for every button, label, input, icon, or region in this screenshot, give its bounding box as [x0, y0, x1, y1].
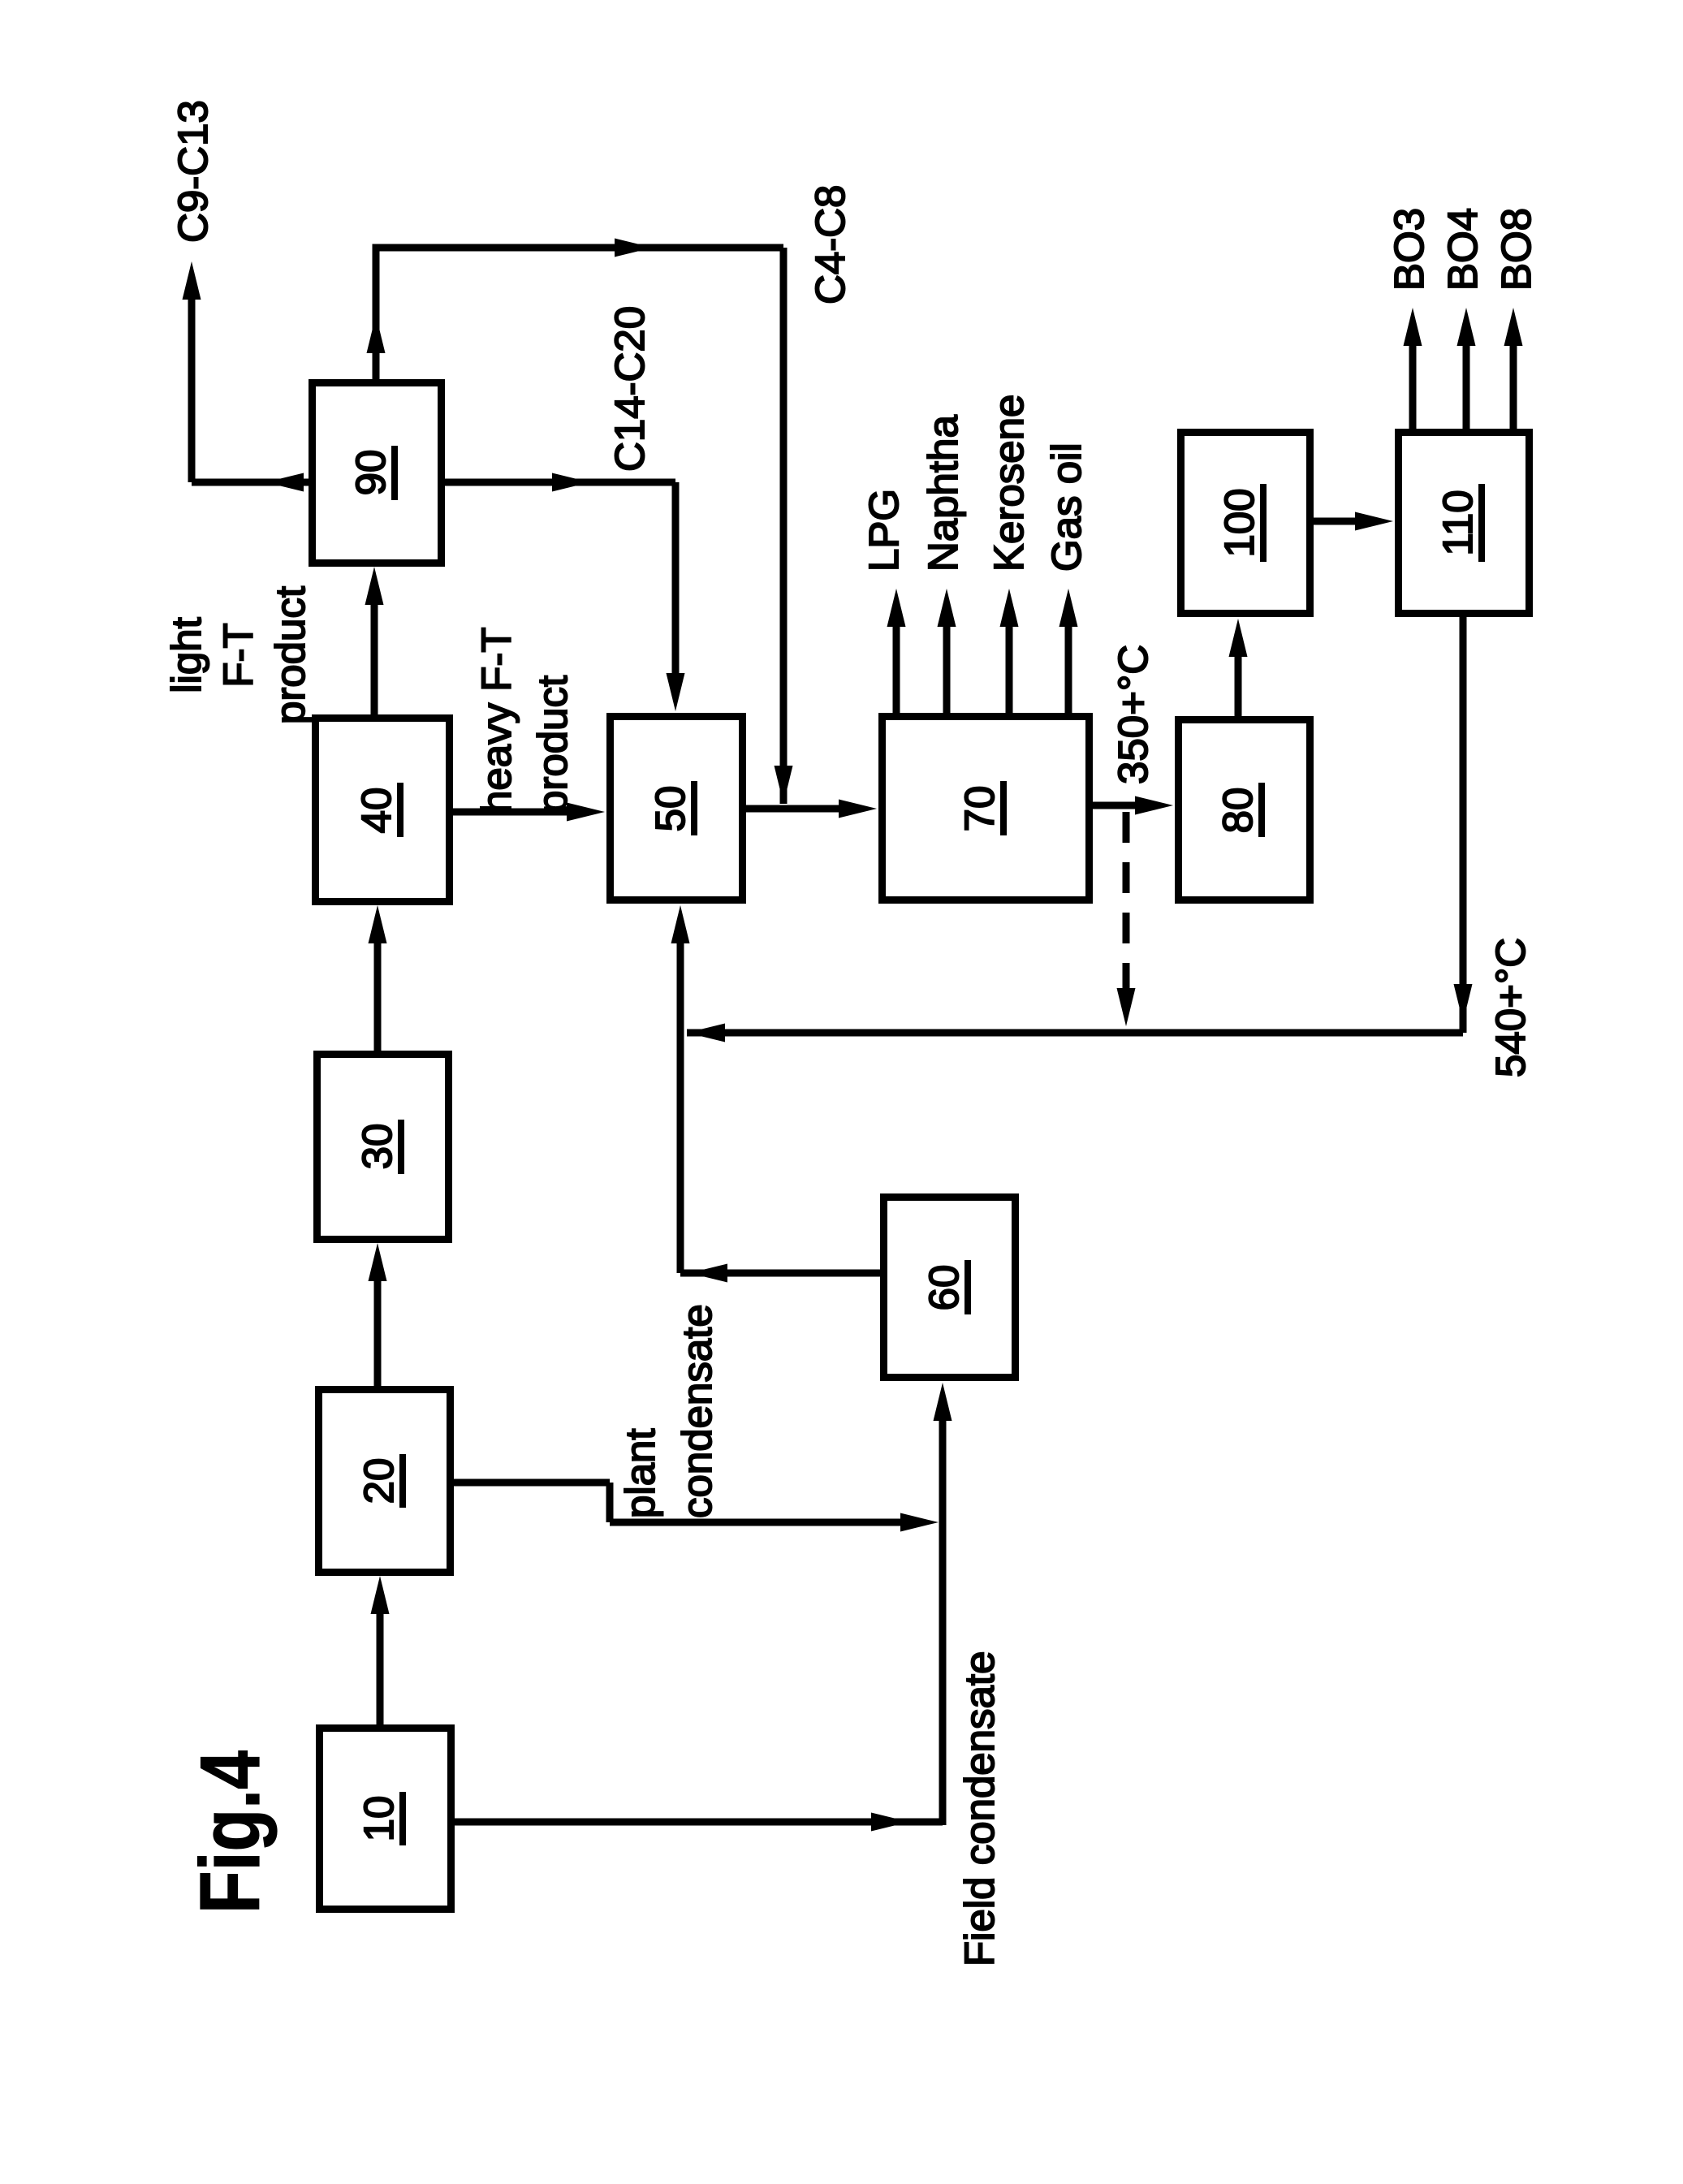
svg-text:condensate: condensate: [674, 1304, 720, 1518]
svg-text:540+°C: 540+°C: [1487, 938, 1534, 1077]
svg-text:BO3: BO3: [1386, 208, 1432, 291]
svg-text:20: 20: [356, 1458, 402, 1504]
svg-text:Field condensate: Field condensate: [956, 1651, 1003, 1966]
svg-text:Fig.4: Fig.4: [183, 1750, 278, 1914]
svg-text:Gas oil: Gas oil: [1043, 442, 1090, 572]
svg-text:40: 40: [353, 788, 399, 834]
svg-text:Naphtha: Naphtha: [920, 415, 966, 572]
svg-text:30: 30: [354, 1124, 400, 1170]
svg-text:70: 70: [956, 786, 1003, 832]
svg-text:10: 10: [356, 1796, 402, 1842]
svg-text:product: product: [529, 675, 576, 814]
svg-text:light: light: [163, 617, 209, 693]
svg-text:BO4: BO4: [1439, 208, 1486, 291]
svg-text:50: 50: [647, 786, 693, 832]
svg-text:80: 80: [1215, 788, 1261, 834]
svg-text:350+°C: 350+°C: [1110, 645, 1156, 784]
svg-text:C14-C20: C14-C20: [606, 306, 653, 472]
svg-text:product: product: [267, 586, 313, 724]
svg-text:plant: plant: [617, 1428, 663, 1518]
svg-text:BO8: BO8: [1493, 208, 1539, 291]
svg-text:Kerosene: Kerosene: [986, 395, 1032, 572]
svg-text:110: 110: [1435, 490, 1481, 555]
svg-text:C9-C13: C9-C13: [170, 100, 216, 243]
svg-text:LPG: LPG: [861, 489, 907, 572]
svg-text:F-T: F-T: [215, 623, 261, 687]
svg-text:C4-C8: C4-C8: [807, 185, 853, 304]
svg-text:heavy F-T: heavy F-T: [473, 627, 520, 814]
svg-text:90: 90: [347, 450, 394, 496]
svg-text:100: 100: [1216, 488, 1262, 557]
svg-text:60: 60: [921, 1265, 967, 1311]
